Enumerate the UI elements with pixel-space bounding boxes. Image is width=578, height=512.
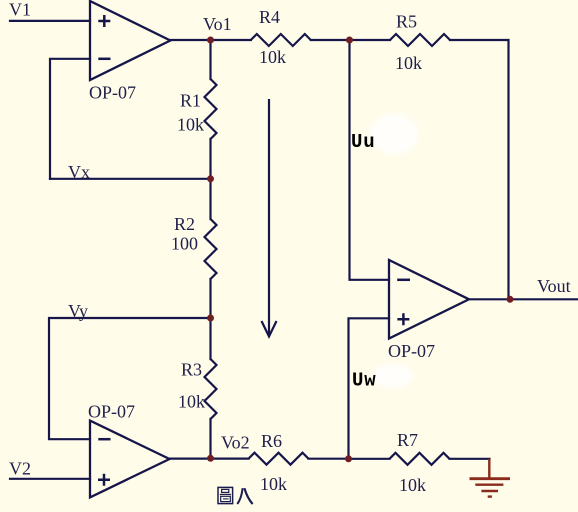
svg-text:V2: V2	[9, 459, 31, 479]
svg-text:R5: R5	[396, 12, 417, 32]
wire op1 output to node Vo1	[170, 39, 251, 41]
svg-text:R1: R1	[180, 91, 201, 111]
svg-text:V1: V1	[9, 0, 31, 20]
junction R6/R7/Vw	[345, 455, 352, 462]
svg-text:R3: R3	[181, 360, 202, 380]
svg-text:10k: 10k	[177, 115, 204, 135]
op-amp U3 OP-07 right	[389, 260, 469, 339]
svg-text:Vy: Vy	[68, 301, 88, 321]
junction R4/R5/Vu	[346, 37, 353, 44]
wire R4 to junction	[311, 39, 390, 41]
wire Vx to R2	[209, 179, 211, 219]
wire op3 output to Vout	[469, 298, 578, 300]
junction op3 output	[507, 296, 514, 303]
svg-text:10k: 10k	[178, 392, 205, 412]
caption 圖八 (figure eight)	[218, 487, 253, 504]
wire R5 to right corner, down to op3 output	[450, 40, 509, 299]
op-amp U1 OP-07 top-left	[90, 1, 170, 80]
wire R2 to Vy	[209, 279, 211, 318]
junction node Vx	[207, 175, 214, 182]
ground symbol	[470, 459, 511, 497]
op-amp U2 plus input symbol	[98, 474, 110, 486]
svg-text:10k: 10k	[260, 474, 287, 494]
white smudge near Vu	[370, 114, 418, 154]
resistor R4 zigzag	[251, 34, 311, 46]
svg-text:Uw: Uw	[352, 370, 376, 392]
wire junction to R7	[349, 458, 390, 460]
resistor R3 zigzag	[205, 359, 217, 419]
svg-text:OP-07: OP-07	[388, 341, 435, 361]
svg-text:Uu: Uu	[351, 131, 375, 153]
junction node Vo1	[207, 37, 214, 44]
svg-text:R6: R6	[261, 431, 282, 451]
node V1 input wire	[10, 20, 90, 22]
wire node Vu vertical to op3 minus input	[350, 40, 390, 280]
wire R3 to Vo2	[209, 419, 211, 458]
op-amp U1 minus input symbol	[98, 58, 110, 61]
wire Vo1 to R1	[209, 40, 211, 79]
resistor R1 zigzag	[205, 79, 217, 139]
op-amp U3 plus input symbol	[397, 313, 409, 325]
resistor R5 zigzag	[390, 34, 450, 46]
white smudge near Vw	[373, 364, 413, 388]
wire op2 output to node Vo2 and R6	[170, 458, 249, 460]
op-amp U3 minus input symbol	[397, 279, 410, 282]
wire node Vy to op2 minus input	[49, 318, 211, 439]
junction node Vo2	[207, 455, 214, 462]
wire op1 feedback to Vx	[50, 59, 90, 179]
wire node Vw vertical to op3 plus input	[349, 318, 390, 459]
svg-text:100: 100	[171, 234, 198, 254]
svg-text:R4: R4	[259, 7, 280, 27]
arrow down center	[262, 99, 277, 337]
wire R7 to ground	[450, 458, 490, 460]
wire R6 to junction	[309, 458, 349, 460]
svg-text:Vx: Vx	[68, 162, 90, 182]
wire R1 to Vx	[209, 139, 211, 179]
svg-text:R7: R7	[397, 430, 418, 450]
svg-text:10k: 10k	[259, 47, 286, 67]
wire node Vx	[50, 178, 211, 180]
svg-text:10k: 10k	[395, 53, 422, 73]
svg-text:Vo1: Vo1	[203, 14, 232, 34]
resistor R7 zigzag	[390, 453, 450, 465]
resistor R6 zigzag	[249, 453, 309, 465]
op-amp U2 minus input symbol	[98, 438, 110, 441]
op-amp U1 plus input symbol	[98, 15, 110, 27]
svg-text:OP-07: OP-07	[89, 83, 136, 103]
svg-text:Vo2: Vo2	[221, 433, 250, 453]
svg-text:10k: 10k	[399, 475, 426, 495]
resistor R2 zigzag	[205, 219, 217, 279]
wire Vy to R3	[209, 318, 211, 359]
svg-text:OP-07: OP-07	[88, 402, 135, 422]
svg-text:R2: R2	[174, 214, 195, 234]
svg-text:Vout: Vout	[537, 276, 571, 296]
junction node Vy	[207, 315, 214, 322]
op-amp U2 OP-07 bottom-left	[90, 421, 170, 498]
node V2 input wire	[10, 478, 90, 480]
